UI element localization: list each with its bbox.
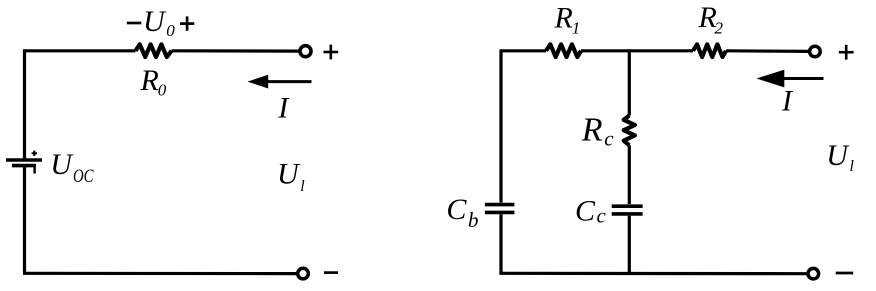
label -U0+ above R0 bbox=[127, 5, 195, 40]
current arrow I (right circuit) bbox=[757, 70, 824, 88]
wire: left circuit left rail lower bbox=[23, 167, 26, 274]
resistor R1 bbox=[546, 44, 581, 57]
svg-text:OC: OC bbox=[73, 166, 94, 187]
label Ul (right circuit) bbox=[826, 139, 854, 175]
wire: middle rail lower (Cc to bottom) bbox=[628, 216, 631, 273]
svg-text:c: c bbox=[597, 204, 607, 228]
label Cc bbox=[575, 195, 607, 228]
svg-text:c: c bbox=[604, 127, 614, 151]
wire: right circuit top wire right of R2 bbox=[726, 49, 809, 53]
svg-text:C: C bbox=[575, 195, 596, 228]
wire: left circuit top wire right of R0 bbox=[172, 49, 300, 52]
polarity + at left circuit top terminal bbox=[324, 45, 339, 60]
terminal: left circuit bottom (open circle) bbox=[298, 268, 309, 279]
capacitor Cb bbox=[485, 205, 515, 213]
wire: right circuit left rail upper bbox=[499, 51, 502, 203]
label R1 bbox=[554, 2, 581, 38]
label I (right circuit) bbox=[781, 84, 794, 117]
label Rc bbox=[581, 112, 615, 151]
wire: right circuit top wire left of R1 bbox=[500, 49, 547, 52]
wire: right circuit top wire between R1 and R2 bbox=[581, 49, 693, 52]
svg-text:l: l bbox=[850, 158, 855, 175]
wire: middle rail upper (node to Rc) bbox=[628, 51, 631, 116]
polarity - at right circuit bottom terminal bbox=[836, 272, 854, 275]
svg-text:U: U bbox=[50, 148, 74, 181]
svg-text:U: U bbox=[826, 139, 850, 172]
terminal: left circuit top (open circle) bbox=[300, 46, 311, 57]
resistor R0 bbox=[136, 44, 172, 57]
wire: middle rail between Rc and Cc bbox=[628, 145, 631, 204]
label Ul (left circuit) bbox=[277, 158, 305, 195]
svg-text:R: R bbox=[140, 64, 159, 97]
svg-text:R: R bbox=[581, 112, 603, 149]
battery UOC bbox=[6, 151, 42, 174]
svg-text:b: b bbox=[468, 208, 479, 232]
wire: left circuit bottom wire bbox=[23, 272, 297, 276]
wire: left circuit top wire left of R0 bbox=[23, 49, 136, 52]
polarity - at left circuit bottom terminal bbox=[324, 271, 338, 274]
svg-text:U: U bbox=[277, 158, 301, 191]
svg-text:R: R bbox=[554, 2, 573, 35]
svg-text:l: l bbox=[300, 178, 305, 195]
svg-text:0: 0 bbox=[158, 81, 167, 100]
label R0 below resistor bbox=[140, 64, 167, 100]
current arrow I (left circuit) bbox=[248, 75, 312, 89]
svg-text:U: U bbox=[143, 5, 167, 38]
label Cb bbox=[446, 193, 478, 232]
resistor Rc (vertical) bbox=[624, 116, 635, 146]
label UOC bbox=[50, 148, 93, 187]
wire: right circuit left rail lower (Cb to bottom) bbox=[499, 214, 502, 273]
svg-text:C: C bbox=[446, 193, 467, 226]
wire: left circuit left rail upper bbox=[23, 51, 26, 159]
resistor R2 bbox=[693, 44, 726, 57]
label I (left circuit) bbox=[277, 92, 290, 125]
wire: right circuit bottom wire bbox=[499, 272, 806, 276]
label R2 bbox=[698, 1, 724, 38]
svg-text:2: 2 bbox=[715, 19, 724, 38]
svg-text:0: 0 bbox=[166, 21, 175, 40]
terminal: right circuit top (open circle) bbox=[810, 46, 821, 57]
terminal: right circuit bottom (open circle) bbox=[808, 268, 819, 279]
capacitor Cc bbox=[612, 206, 643, 214]
svg-text:1: 1 bbox=[572, 19, 581, 38]
polarity + at right circuit top terminal bbox=[839, 45, 854, 60]
